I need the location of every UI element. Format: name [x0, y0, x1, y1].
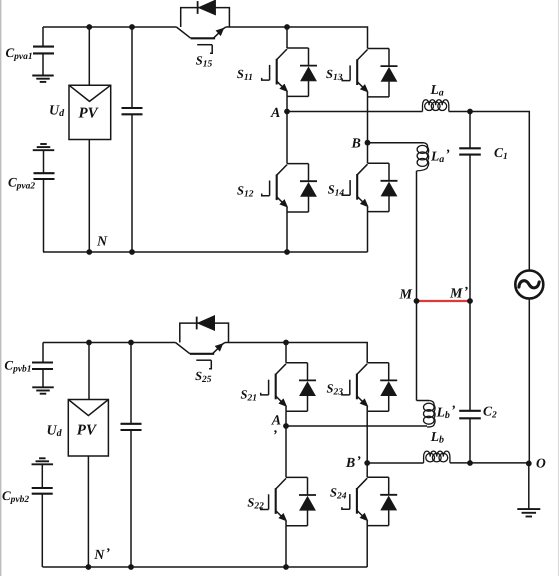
svg-text:N: N [96, 235, 108, 250]
svg-text:A: A [271, 414, 281, 429]
svg-text:A: A [270, 106, 280, 121]
svg-text:PV: PV [79, 106, 100, 122]
svg-text:B: B [351, 137, 361, 152]
svg-text:M’: M’ [449, 285, 468, 302]
svg-text:’: ’ [273, 429, 278, 444]
svg-text:O: O [536, 455, 546, 470]
svg-text:M: M [399, 288, 413, 303]
svg-text:PV: PV [77, 423, 98, 439]
svg-text:B’: B’ [345, 455, 361, 472]
svg-text:N’: N’ [93, 547, 110, 564]
